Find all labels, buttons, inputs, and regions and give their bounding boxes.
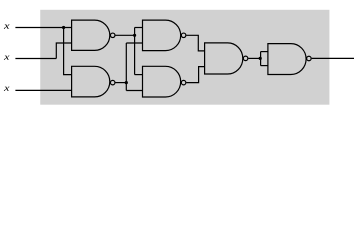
bubble U1 [110,33,115,38]
bubble U4 [181,80,186,85]
junction U1 out [133,34,136,37]
wire U5 out [248,57,260,59]
nand U1 [72,20,110,50]
wire input x2 [15,58,56,60]
wire x1 branch down to U2 top [64,28,72,75]
label x1 [4,24,10,28]
shaded circuit background [40,10,329,105]
junction U5 out [259,57,262,60]
wire output [312,57,354,59]
nand U2 [72,66,110,97]
wire input x1 [15,27,71,29]
wire U1 out branch vertical [134,28,136,75]
wire U2 out branch vertical [125,43,127,91]
nand U4 [143,66,181,97]
bubble U6 [307,56,312,61]
nand U3 [143,20,181,50]
junction x1 [62,26,65,29]
wire into U4 bottom [126,90,142,92]
junction U2 out [125,81,128,84]
bubble U3 [181,33,186,38]
wire U4 out step up to U5 [186,67,204,83]
wire U2 out [115,82,126,84]
nand U6 [268,44,306,75]
wire x2 up to U1 bottom [56,43,71,59]
label x3 [4,87,10,91]
wire U5 fork vertical [260,52,262,66]
wire into U6 bottom [261,65,268,67]
label x2 [4,55,10,59]
wire into U3 top [135,27,143,29]
wire U1 out [115,34,134,36]
wire into U4 top [135,74,143,76]
wire U3 out step down to U5 [186,35,204,51]
nand U5 [205,43,243,74]
bubble U5 [243,56,248,61]
bubble U2 [110,80,115,85]
wire input x3 [15,89,71,91]
wire into U3 bottom [126,42,142,44]
wire into U6 top [261,51,268,53]
